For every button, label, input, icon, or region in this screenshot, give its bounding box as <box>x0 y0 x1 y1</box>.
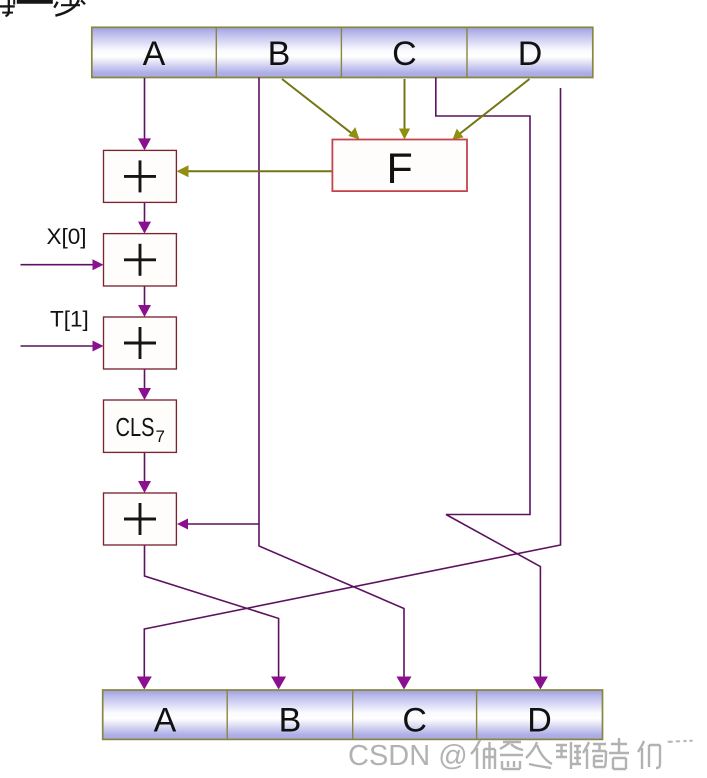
register bar bottom (A B C D) <box>103 690 603 739</box>
function box F <box>332 140 467 194</box>
watermark trailing dashes <box>668 740 693 743</box>
watermark CSDN <box>348 740 468 772</box>
wire D down to bottom A' <box>144 88 560 678</box>
wire C (jog) down to bottom D' <box>436 78 541 679</box>
shift box CLS7 <box>104 400 177 452</box>
svg-text:C: C <box>402 702 427 740</box>
svg-text:T[1]: T[1] <box>50 307 89 332</box>
wire adder1 to adder2 <box>138 202 151 233</box>
svg-text:B: B <box>268 35 291 73</box>
svg-text:F: F <box>387 145 413 193</box>
adder 1 (+) <box>104 150 177 202</box>
wire T[1] into adder3 <box>21 341 104 352</box>
olive wire D into F <box>453 79 530 140</box>
wire adder3 to CLS box <box>138 369 151 400</box>
olive wire C into F <box>399 79 410 140</box>
svg-text:7: 7 <box>156 427 165 446</box>
register bar top (A B C D) <box>92 27 593 77</box>
watermark CJK glyph strokes <box>471 738 660 769</box>
olive wire F output into adder1 <box>177 165 333 177</box>
wire adder2 to adder3 <box>138 286 151 317</box>
svg-text:CLS: CLS <box>116 414 155 442</box>
wire CLS box to final adder <box>138 452 151 493</box>
svg-text:CSDN @: CSDN @ <box>348 740 468 772</box>
wire A down to adder 1 <box>138 78 151 150</box>
wire B down (to final adder branch and to bottom C') <box>259 78 404 679</box>
wire final adder output to bottom B' <box>145 545 279 678</box>
svg-text:X[0]: X[0] <box>47 224 87 249</box>
svg-text:B: B <box>279 702 302 740</box>
adder 4 final (+) <box>104 493 177 545</box>
svg-text:A: A <box>143 35 166 73</box>
adder 2 (+) <box>104 234 177 286</box>
title text fragment "每一步" (cropped at top) <box>0 0 85 16</box>
wire branch B into final adder <box>177 519 259 530</box>
svg-text:C: C <box>392 35 417 73</box>
olive wire B into F <box>282 79 360 140</box>
wire X[0] into adder2 <box>21 259 104 270</box>
adder 3 (+) <box>104 317 177 369</box>
svg-text:A: A <box>154 702 177 740</box>
svg-text:D: D <box>527 702 552 740</box>
svg-text:D: D <box>518 35 543 73</box>
